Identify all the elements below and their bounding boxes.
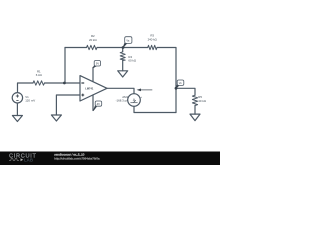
ground below R4 [118, 71, 128, 77]
op-amp minus sign [81, 82, 84, 84]
svg-text:LAB: LAB [24, 158, 33, 163]
footer logo waveform [9, 159, 19, 161]
node junction dot at R1/feedback [63, 82, 66, 85]
node junction dot Va [122, 46, 125, 49]
op-amp plus sign [81, 94, 84, 97]
wire V1 lower stem [16, 103, 18, 116]
wire ammeter bottom to Vo node [134, 106, 176, 112]
footer bar [0, 152, 220, 166]
node junction dot Vo [175, 87, 178, 90]
flag Vo box [176, 80, 184, 88]
wire R1 to op-amp minus input [45, 82, 81, 84]
resistor R4 vertical stem from Va node [122, 48, 124, 52]
ground below V1 [12, 116, 22, 122]
ground below R5 [190, 114, 200, 121]
wire op-amp output [107, 88, 134, 93]
footer logo LAB [21, 158, 24, 161]
wire Vo node to R5 [176, 88, 195, 95]
wire top right + right vertical [157, 48, 176, 113]
flag 9V box [93, 61, 101, 68]
wire top feedback horizontal [65, 47, 87, 49]
svg-text:-168.3 µA: -168.3 µA [116, 99, 129, 103]
svg-text:LM741: LM741 [85, 87, 94, 91]
V1 plus sign [16, 94, 19, 100]
wire top middle [97, 47, 148, 49]
resistor R1 [33, 81, 45, 85]
svg-text:http://circuitlab.com/c7964sks: http://circuitlab.com/c7964sks76r5a [54, 157, 100, 161]
wire R5 to ground [194, 106, 196, 115]
svg-text:6 kΩ: 6 kΩ [36, 73, 43, 77]
ground below plus input [51, 115, 61, 121]
ammeter AM1 circle [128, 94, 141, 107]
op-amp U1 triangle [80, 76, 107, 101]
svg-text:20 kΩ: 20 kΩ [89, 38, 97, 42]
svg-text:40 kΩ: 40 kΩ [198, 99, 206, 103]
resistor R4 [120, 52, 125, 61]
wire op-amp V- stem [92, 95, 94, 111]
flag Va box [123, 37, 132, 48]
wire op-amp V+ stem [92, 68, 94, 82]
resistor R2 [87, 45, 98, 49]
wire R4 to ground [122, 61, 124, 71]
flag -9V box [93, 101, 101, 111]
wire feedback vertical [64, 48, 66, 84]
voltage source V1 circle [12, 93, 22, 103]
wire op-amp plus input to ground [56, 95, 80, 115]
svg-text:120 mV: 120 mV [25, 99, 35, 103]
svg-text:240 kΩ: 240 kΩ [148, 38, 158, 42]
svg-text:9V: 9V [96, 62, 99, 66]
resistor R3 [148, 45, 157, 49]
svg-text:60 kΩ: 60 kΩ [128, 59, 136, 63]
svg-text:-9V: -9V [96, 103, 100, 106]
resistor R5 vertical [192, 95, 197, 105]
wire V1 to R1 [18, 83, 34, 93]
ammeter current arrow [137, 89, 153, 92]
